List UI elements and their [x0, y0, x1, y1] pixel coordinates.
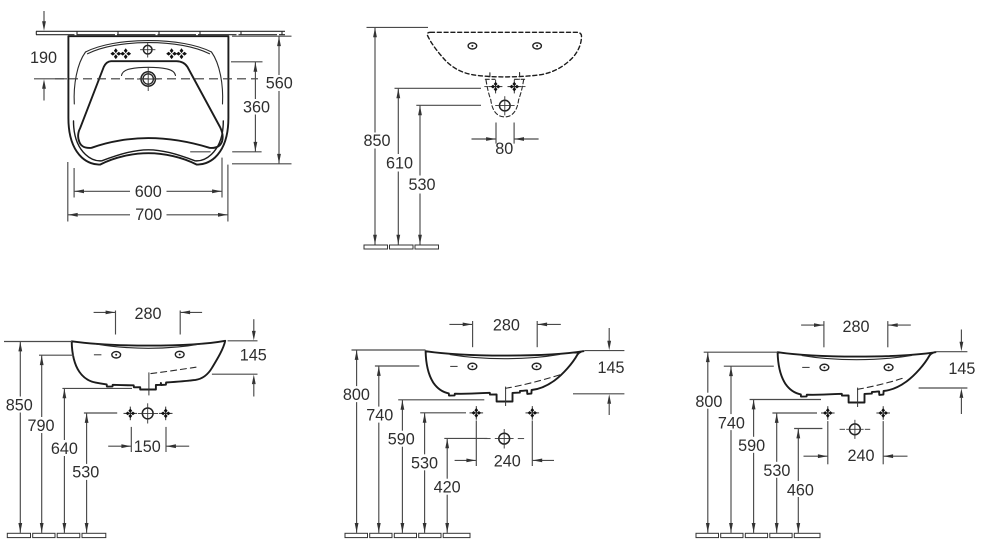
- dim 530: [72, 413, 117, 533]
- dim 280: [449, 316, 560, 347]
- dim 190: [30, 11, 67, 101]
- trap outlet circle: [495, 96, 514, 115]
- fixing star right: [876, 406, 890, 420]
- svg-text:590: 590: [388, 431, 415, 449]
- rim back double arc: [86, 41, 212, 52]
- dim 610: [386, 88, 481, 244]
- svg-text:280: 280: [842, 318, 869, 336]
- overflow hole right: [532, 363, 541, 369]
- dim 145: [573, 328, 625, 415]
- hidden outlet dashed line: [506, 375, 562, 389]
- trap neck dashed: [485, 73, 524, 117]
- svg-text:280: 280: [493, 316, 520, 334]
- floor line: [696, 533, 820, 537]
- dim 240: [804, 421, 908, 465]
- svg-text:800: 800: [695, 393, 722, 411]
- svg-text:530: 530: [72, 464, 99, 482]
- centerline tick: [802, 366, 809, 368]
- drain hole: [137, 67, 160, 91]
- basin outline (front view 3): [778, 352, 936, 402]
- basin outline (front view 1): [72, 341, 226, 390]
- rim lens line: [96, 344, 202, 349]
- svg-text:790: 790: [27, 417, 54, 435]
- dim 590: [388, 400, 485, 533]
- dim 460: [787, 429, 823, 533]
- dim 700: [68, 162, 228, 224]
- svg-text:640: 640: [51, 440, 78, 458]
- dashed centerline: [55, 78, 258, 80]
- svg-text:560: 560: [266, 75, 293, 93]
- dim 800: [695, 352, 777, 533]
- wall line: [36, 31, 285, 34]
- svg-text:700: 700: [135, 206, 162, 224]
- floor line: [345, 533, 470, 537]
- svg-text:190: 190: [30, 49, 57, 67]
- drain centerline: [505, 387, 507, 406]
- dim 280: [801, 318, 911, 347]
- svg-text:80: 80: [495, 140, 513, 158]
- overflow shelf arc: [122, 67, 176, 75]
- center tap hole: [140, 43, 155, 58]
- dim 80: [472, 123, 539, 159]
- fixing star right: [159, 407, 173, 421]
- fixing hole center: [138, 403, 158, 423]
- centerline tick: [94, 354, 102, 356]
- hidden outlet dashed line: [858, 378, 905, 390]
- dim 530: [763, 413, 817, 533]
- fixing hole center: [484, 429, 524, 449]
- rim side arcs: [74, 52, 85, 104]
- fixing star left: [821, 406, 835, 420]
- dim 145: [212, 319, 267, 396]
- floor line: [364, 245, 439, 249]
- dim 740: [718, 366, 774, 533]
- inner basin bowl outline: [78, 61, 223, 148]
- dim 790: [27, 355, 74, 533]
- trap fixing star right: [508, 80, 522, 94]
- svg-text:150: 150: [134, 438, 161, 456]
- tap hole star cluster left: [110, 48, 121, 59]
- svg-text:850: 850: [6, 396, 33, 414]
- fixing star right: [526, 406, 540, 420]
- svg-text:530: 530: [408, 176, 435, 194]
- hidden outlet dashed line: [151, 367, 196, 373]
- svg-text:145: 145: [948, 360, 975, 378]
- dim 530: [408, 105, 481, 244]
- dim 530: [411, 413, 466, 533]
- svg-text:610: 610: [386, 154, 413, 172]
- centerline tick: [450, 365, 457, 367]
- dim 800: [343, 350, 426, 533]
- dim 850: [4, 342, 72, 533]
- trap fixing star left: [489, 80, 503, 94]
- dim 240: [455, 421, 554, 471]
- dim 560: [232, 36, 293, 164]
- dim 850: [363, 27, 428, 244]
- svg-text:280: 280: [134, 305, 161, 323]
- floor line: [7, 533, 106, 537]
- overflow hole left: [820, 364, 829, 370]
- overflow hole left: [468, 43, 477, 49]
- svg-text:590: 590: [738, 437, 765, 455]
- dim 740: [366, 366, 419, 533]
- svg-text:530: 530: [411, 454, 438, 472]
- tap hole star cluster right: [166, 48, 177, 59]
- svg-text:530: 530: [763, 462, 790, 480]
- svg-text:145: 145: [240, 346, 267, 364]
- svg-text:740: 740: [366, 407, 393, 425]
- basin inner bottom rim line: [74, 121, 224, 161]
- svg-text:420: 420: [434, 479, 461, 497]
- svg-text:460: 460: [787, 481, 814, 499]
- overflow hole left: [468, 363, 477, 369]
- dim 145: [919, 330, 976, 415]
- dim 600: [74, 158, 222, 201]
- basin outer outline (top view): [68, 36, 228, 164]
- overflow hole right: [533, 43, 542, 49]
- dim 150: [108, 427, 189, 456]
- svg-text:145: 145: [597, 359, 624, 377]
- drain centerline: [148, 372, 150, 395]
- drain centerline: [857, 388, 859, 407]
- overflow hole right: [175, 351, 184, 357]
- overflow hole left: [112, 352, 121, 358]
- overflow hole right: [884, 364, 893, 370]
- fixing star left: [470, 406, 484, 420]
- bowl dashed outline (front view): [427, 32, 581, 77]
- rim lens line: [802, 355, 911, 359]
- dim 280: [94, 305, 203, 334]
- svg-text:240: 240: [494, 452, 521, 470]
- rim lens line: [450, 354, 559, 358]
- svg-text:850: 850: [363, 132, 390, 150]
- fixing star left: [124, 407, 138, 421]
- svg-text:740: 740: [718, 414, 745, 432]
- dim 640: [51, 388, 132, 533]
- svg-text:240: 240: [847, 447, 874, 465]
- dim 590: [738, 400, 821, 533]
- basin outline (front view 2): [426, 351, 584, 401]
- fixing hole center: [840, 420, 871, 439]
- svg-text:600: 600: [135, 183, 162, 201]
- dim 360: [190, 62, 270, 152]
- dim 420: [434, 438, 488, 533]
- svg-text:800: 800: [343, 386, 370, 404]
- svg-text:360: 360: [243, 98, 270, 116]
